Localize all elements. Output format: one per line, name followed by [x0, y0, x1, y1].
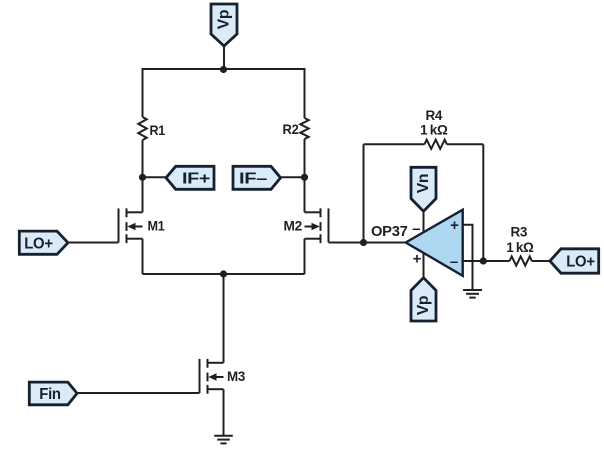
wire IF+ tap — [143, 176, 167, 178]
wire M1 drain to IF+ node — [142, 177, 144, 212]
wire R3 to LO+ — [532, 260, 550, 262]
node op-amp output junction — [360, 239, 367, 246]
wire top rail to R2 — [304, 68, 306, 118]
resistor R2 — [300, 118, 308, 139]
node top rail junction — [220, 66, 227, 73]
svg-text:OP37: OP37 — [371, 223, 408, 240]
svg-text:M2: M2 — [284, 218, 303, 234]
wire feedback top right — [447, 143, 484, 145]
svg-text:+: + — [413, 251, 422, 268]
node IF+ junction — [139, 174, 146, 181]
power flag Vp (op-amp) — [411, 278, 436, 321]
wire top rail — [143, 68, 305, 70]
wire top rail to R1 — [142, 68, 144, 117]
ground (M3) — [214, 436, 233, 444]
svg-text:Vn: Vn — [415, 174, 432, 194]
wire M3 source to ground — [223, 389, 225, 436]
resistor R1 — [138, 117, 146, 140]
svg-text:1 kΩ: 1 kΩ — [506, 240, 534, 255]
resistor R4 — [425, 140, 447, 149]
flag Fin — [29, 382, 77, 405]
wire R2 to IF- node — [304, 139, 306, 177]
wire inverting input to R3 — [463, 260, 510, 262]
svg-text:+: + — [450, 217, 459, 234]
flag IF- — [233, 166, 281, 189]
wire rail to M3 drain — [223, 274, 225, 363]
wire feedback top left — [364, 143, 425, 145]
svg-text:Fin: Fin — [39, 386, 61, 403]
wire feedback left vertical — [363, 144, 365, 242]
node feedback junction — [480, 257, 487, 264]
wire LO+ to M1 gate — [68, 242, 119, 244]
transistor M2 — [284, 208, 329, 243]
wire Fin to M3 gate — [77, 392, 199, 394]
svg-text:R3: R3 — [510, 225, 527, 240]
flag LO+ (right) — [550, 249, 599, 273]
svg-text:LO+: LO+ — [24, 235, 53, 252]
wire Vp stem to top rail — [223, 46, 225, 69]
ground (op-amp input) — [463, 290, 482, 298]
wire M2 source down — [304, 239, 306, 274]
svg-text:Vp: Vp — [415, 295, 432, 315]
svg-text:–: – — [412, 220, 420, 237]
svg-text:IF+: IF+ — [182, 170, 210, 187]
wire common source rail — [143, 273, 305, 275]
wire R1 to IF+ node — [142, 140, 144, 177]
wire non-inverting input to ground — [463, 225, 473, 290]
op-amp U1 OP37 — [371, 210, 463, 276]
node source rail junction — [220, 270, 227, 277]
svg-text:1 kΩ: 1 kΩ — [420, 123, 448, 138]
wire Vn to op-amp — [423, 211, 425, 233]
svg-text:Vp: Vp — [216, 9, 233, 29]
wire Vp to op-amp — [423, 252, 425, 278]
svg-text:–: – — [450, 254, 458, 271]
transistor M3 — [200, 359, 246, 394]
transistor M1 — [119, 208, 165, 243]
flag IF+ — [166, 166, 214, 189]
node IF- junction — [301, 174, 308, 181]
svg-text:R1: R1 — [150, 122, 166, 138]
wire IF- tap — [281, 176, 305, 178]
wire M1 source down — [142, 239, 144, 274]
svg-text:R4: R4 — [425, 108, 442, 123]
power flag Vp (top) — [211, 4, 237, 46]
svg-text:R2: R2 — [283, 121, 299, 137]
svg-text:M3: M3 — [227, 368, 245, 384]
svg-text:LO+: LO+ — [566, 254, 595, 271]
wire M2 drain to IF- node — [304, 177, 306, 212]
svg-text:M1: M1 — [148, 218, 165, 234]
resistor R3 — [510, 256, 532, 265]
wire feedback right vertical — [482, 144, 484, 261]
svg-text:IF–: IF– — [239, 170, 268, 187]
power flag Vn — [411, 167, 436, 211]
wire M2 gate to op-amp output — [329, 242, 406, 244]
flag LO+ (left) — [19, 231, 68, 254]
